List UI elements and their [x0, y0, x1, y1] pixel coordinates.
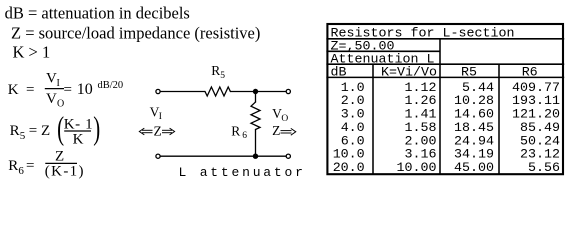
- wire: R6 lower lead: [255, 130, 257, 157]
- svg-text:=: =: [64, 82, 72, 98]
- resistor R5 (series zigzag): [205, 87, 230, 96]
- svg-text:45.00: 45.00: [454, 161, 494, 176]
- svg-text:dB: dB: [331, 66, 347, 81]
- svg-text:R: R: [8, 158, 18, 174]
- svg-text:R: R: [10, 123, 20, 139]
- svg-text:K: K: [73, 132, 84, 148]
- svg-text:=: =: [29, 123, 37, 139]
- svg-text:dB/20: dB/20: [98, 80, 124, 91]
- resistor R6 (shunt zigzag): [251, 102, 260, 130]
- svg-text:I: I: [57, 78, 60, 89]
- table data rows: [333, 81, 560, 176]
- fraction bar VI/VO: [45, 88, 64, 90]
- big left paren: [57, 109, 64, 146]
- label VI (input voltage): [150, 104, 162, 122]
- label VO (output voltage): [272, 106, 288, 124]
- svg-text:20.0: 20.0: [333, 161, 365, 176]
- output terminal top (open circle): [286, 89, 290, 93]
- svg-text:R: R: [211, 63, 220, 78]
- svg-text:V: V: [46, 71, 57, 87]
- svg-text:10: 10: [77, 81, 93, 98]
- svg-text:R5: R5: [461, 66, 477, 81]
- input terminal bottom (open circle): [156, 154, 160, 158]
- arrow: double arrow right at input: [162, 128, 175, 135]
- wire: top right segment: [230, 91, 286, 93]
- table outer border: [327, 24, 563, 174]
- node: bottom junction: [253, 154, 258, 159]
- svg-text:(K-1): (K-1): [45, 164, 85, 180]
- svg-text:O: O: [57, 99, 64, 110]
- arrow: double arrow right at output: [281, 128, 296, 135]
- svg-text:I: I: [159, 112, 162, 122]
- arrow: double arrow left (input impedance): [139, 128, 152, 135]
- table line under title: [326, 38, 564, 40]
- svg-text:K: K: [8, 82, 19, 98]
- formula R6 = Z/(K-1): [8, 149, 85, 180]
- svg-text:R: R: [231, 123, 240, 138]
- table divider K column: [439, 39, 441, 174]
- svg-text:=: =: [26, 158, 34, 174]
- svg-text:V: V: [46, 91, 57, 107]
- svg-text:Z: Z: [154, 123, 162, 138]
- svg-text:Z: Z: [55, 149, 64, 165]
- svg-text:O: O: [281, 114, 288, 124]
- label R5: [211, 63, 225, 81]
- svg-text:K=Vi/Vo: K=Vi/Vo: [381, 66, 437, 81]
- svg-text:Z: Z: [272, 123, 280, 138]
- table line under Attenuation row: [326, 63, 564, 65]
- svg-text:=: =: [26, 82, 34, 98]
- svg-text:10.00: 10.00: [397, 161, 437, 176]
- svg-text:dB = attenuation in decibels: dB = attenuation in decibels: [5, 4, 190, 23]
- formula K = VI/VO = 10^dB/20: [8, 71, 123, 110]
- formula R5 = Z (K-1)/K: [10, 109, 101, 147]
- output terminal bottom (open circle): [286, 154, 290, 158]
- svg-text:6: 6: [242, 131, 247, 141]
- svg-text:K > 1: K > 1: [13, 43, 51, 62]
- svg-text:): ): [93, 109, 100, 146]
- table divider dB column: [372, 64, 374, 174]
- table line under Z row (partial): [326, 50, 440, 52]
- table divider R5 column: [498, 64, 500, 174]
- svg-text:Z = source/load impedance (res: Z = source/load impedance (resistive): [11, 24, 260, 43]
- fraction bar Z/(K-1): [45, 162, 77, 164]
- input terminal top (open circle): [156, 89, 160, 93]
- svg-text:6: 6: [18, 165, 24, 177]
- svg-text:R6: R6: [522, 66, 538, 81]
- wire: R6 upper lead: [255, 92, 257, 103]
- svg-text:5: 5: [20, 130, 26, 142]
- svg-text:K- 1: K- 1: [64, 116, 93, 132]
- svg-text:5: 5: [220, 71, 225, 81]
- wire: top left segment: [160, 91, 205, 93]
- definitions text block: [5, 4, 261, 62]
- label R6: [231, 123, 247, 141]
- svg-text:Z: Z: [41, 123, 50, 139]
- wire: bottom: [160, 155, 286, 157]
- svg-text:5.56: 5.56: [528, 161, 560, 176]
- table line under header row: [326, 76, 564, 78]
- big right paren: [93, 109, 100, 146]
- svg-text:L attenuator: L attenuator: [179, 165, 306, 180]
- fraction bar (K-1)/K: [64, 130, 91, 132]
- node: top junction: [253, 89, 258, 94]
